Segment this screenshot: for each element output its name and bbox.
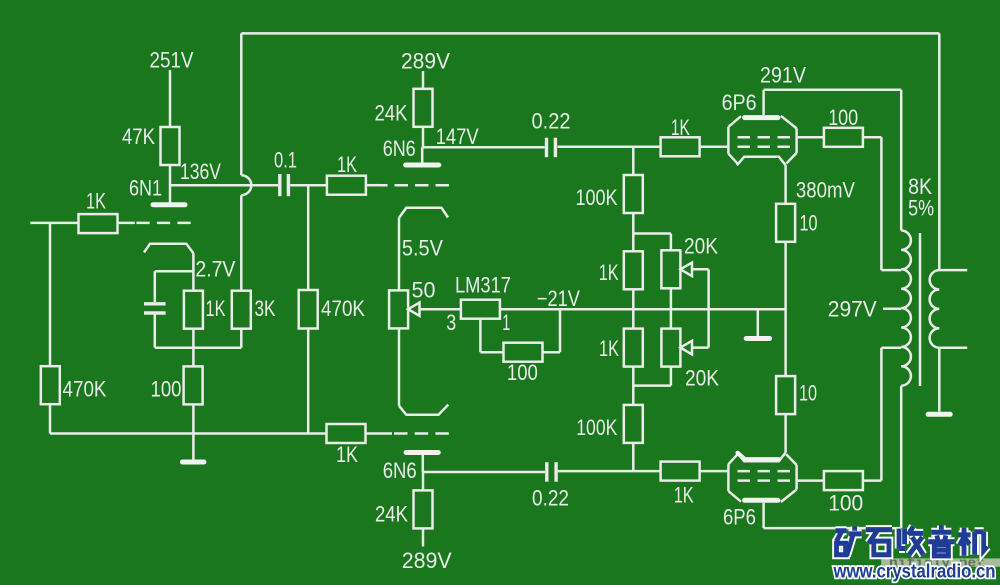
svg-text:1K: 1K: [86, 189, 106, 214]
svg-text:1K: 1K: [671, 115, 690, 140]
svg-text:3: 3: [446, 310, 456, 335]
svg-text:3K: 3K: [255, 296, 276, 321]
svg-text:297V: 297V: [828, 297, 877, 322]
svg-text:100: 100: [828, 491, 863, 516]
svg-text:100: 100: [507, 360, 538, 385]
svg-text:289V: 289V: [401, 49, 450, 74]
svg-text:100: 100: [151, 377, 182, 402]
svg-text:100K: 100K: [576, 415, 617, 440]
svg-text:147V: 147V: [436, 124, 479, 149]
svg-text:50: 50: [412, 278, 436, 303]
svg-text:0.22: 0.22: [532, 109, 571, 134]
svg-text:1K: 1K: [674, 483, 694, 508]
svg-text:470K: 470K: [63, 377, 107, 402]
svg-text:1K: 1K: [337, 152, 357, 177]
svg-text:1K: 1K: [599, 336, 619, 361]
svg-text:100K: 100K: [576, 185, 618, 210]
svg-text:−21V: −21V: [537, 286, 580, 311]
svg-text:100: 100: [828, 105, 858, 130]
svg-text:24K: 24K: [375, 101, 408, 126]
svg-text:1: 1: [502, 310, 510, 335]
svg-text:1K: 1K: [599, 260, 619, 285]
svg-text:136V: 136V: [180, 159, 221, 184]
svg-text:0.22: 0.22: [532, 486, 569, 511]
svg-text:251V: 251V: [150, 48, 194, 73]
svg-text:6P6: 6P6: [722, 90, 757, 115]
svg-text:6N1: 6N1: [129, 176, 162, 201]
svg-text:0.1: 0.1: [274, 148, 297, 173]
svg-text:5.5V: 5.5V: [402, 236, 443, 261]
svg-text:6N6: 6N6: [383, 136, 416, 161]
svg-text:6P6: 6P6: [723, 505, 756, 530]
svg-text:6N6: 6N6: [383, 458, 417, 483]
svg-text:24K: 24K: [375, 502, 408, 527]
svg-text:www.crystalradio.cn: www.crystalradio.cn: [833, 562, 996, 583]
svg-text:20K: 20K: [684, 234, 718, 259]
svg-text:10: 10: [799, 381, 817, 406]
svg-text:47K: 47K: [122, 124, 155, 149]
svg-text:289V: 289V: [402, 548, 452, 573]
svg-text:2.7V: 2.7V: [195, 257, 235, 282]
svg-text:10: 10: [800, 211, 818, 236]
svg-text:1K: 1K: [206, 296, 226, 321]
svg-text:5%: 5%: [908, 196, 934, 221]
svg-text:LM317: LM317: [455, 273, 511, 298]
svg-text:1K: 1K: [336, 442, 358, 467]
svg-text:20K: 20K: [685, 366, 719, 391]
svg-text:470K: 470K: [321, 296, 365, 321]
svg-text:291V: 291V: [760, 63, 806, 88]
svg-text:380mV: 380mV: [796, 178, 855, 203]
